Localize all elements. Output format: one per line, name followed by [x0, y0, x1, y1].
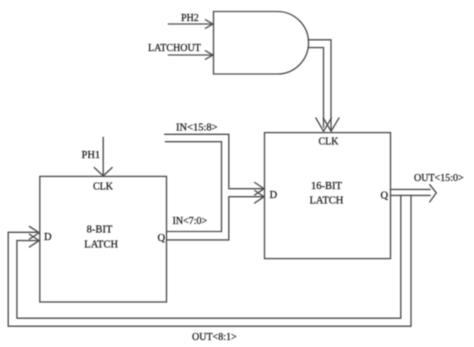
svg-text:8-BIT: 8-BIT [87, 225, 113, 236]
svg-text:16-BIT: 16-BIT [311, 181, 342, 192]
svg-text:LATCH: LATCH [310, 196, 344, 207]
svg-text:LATCH: LATCH [84, 240, 118, 251]
svg-text:OUT<15:0>: OUT<15:0> [414, 173, 464, 184]
svg-text:Q: Q [381, 191, 389, 202]
svg-text:PH1: PH1 [82, 150, 101, 161]
svg-text:LATCHOUT: LATCHOUT [148, 43, 201, 54]
svg-text:D: D [44, 232, 52, 243]
svg-text:D: D [270, 190, 278, 201]
svg-text:CLK: CLK [93, 182, 114, 193]
svg-text:Q: Q [158, 233, 166, 244]
svg-text:CLK: CLK [319, 137, 340, 148]
svg-text:PH2: PH2 [181, 13, 199, 24]
svg-text:OUT<8:1>: OUT<8:1> [192, 332, 237, 343]
svg-text:IN<7:0>: IN<7:0> [173, 216, 208, 227]
svg-text:IN<15:8>: IN<15:8> [176, 123, 218, 134]
